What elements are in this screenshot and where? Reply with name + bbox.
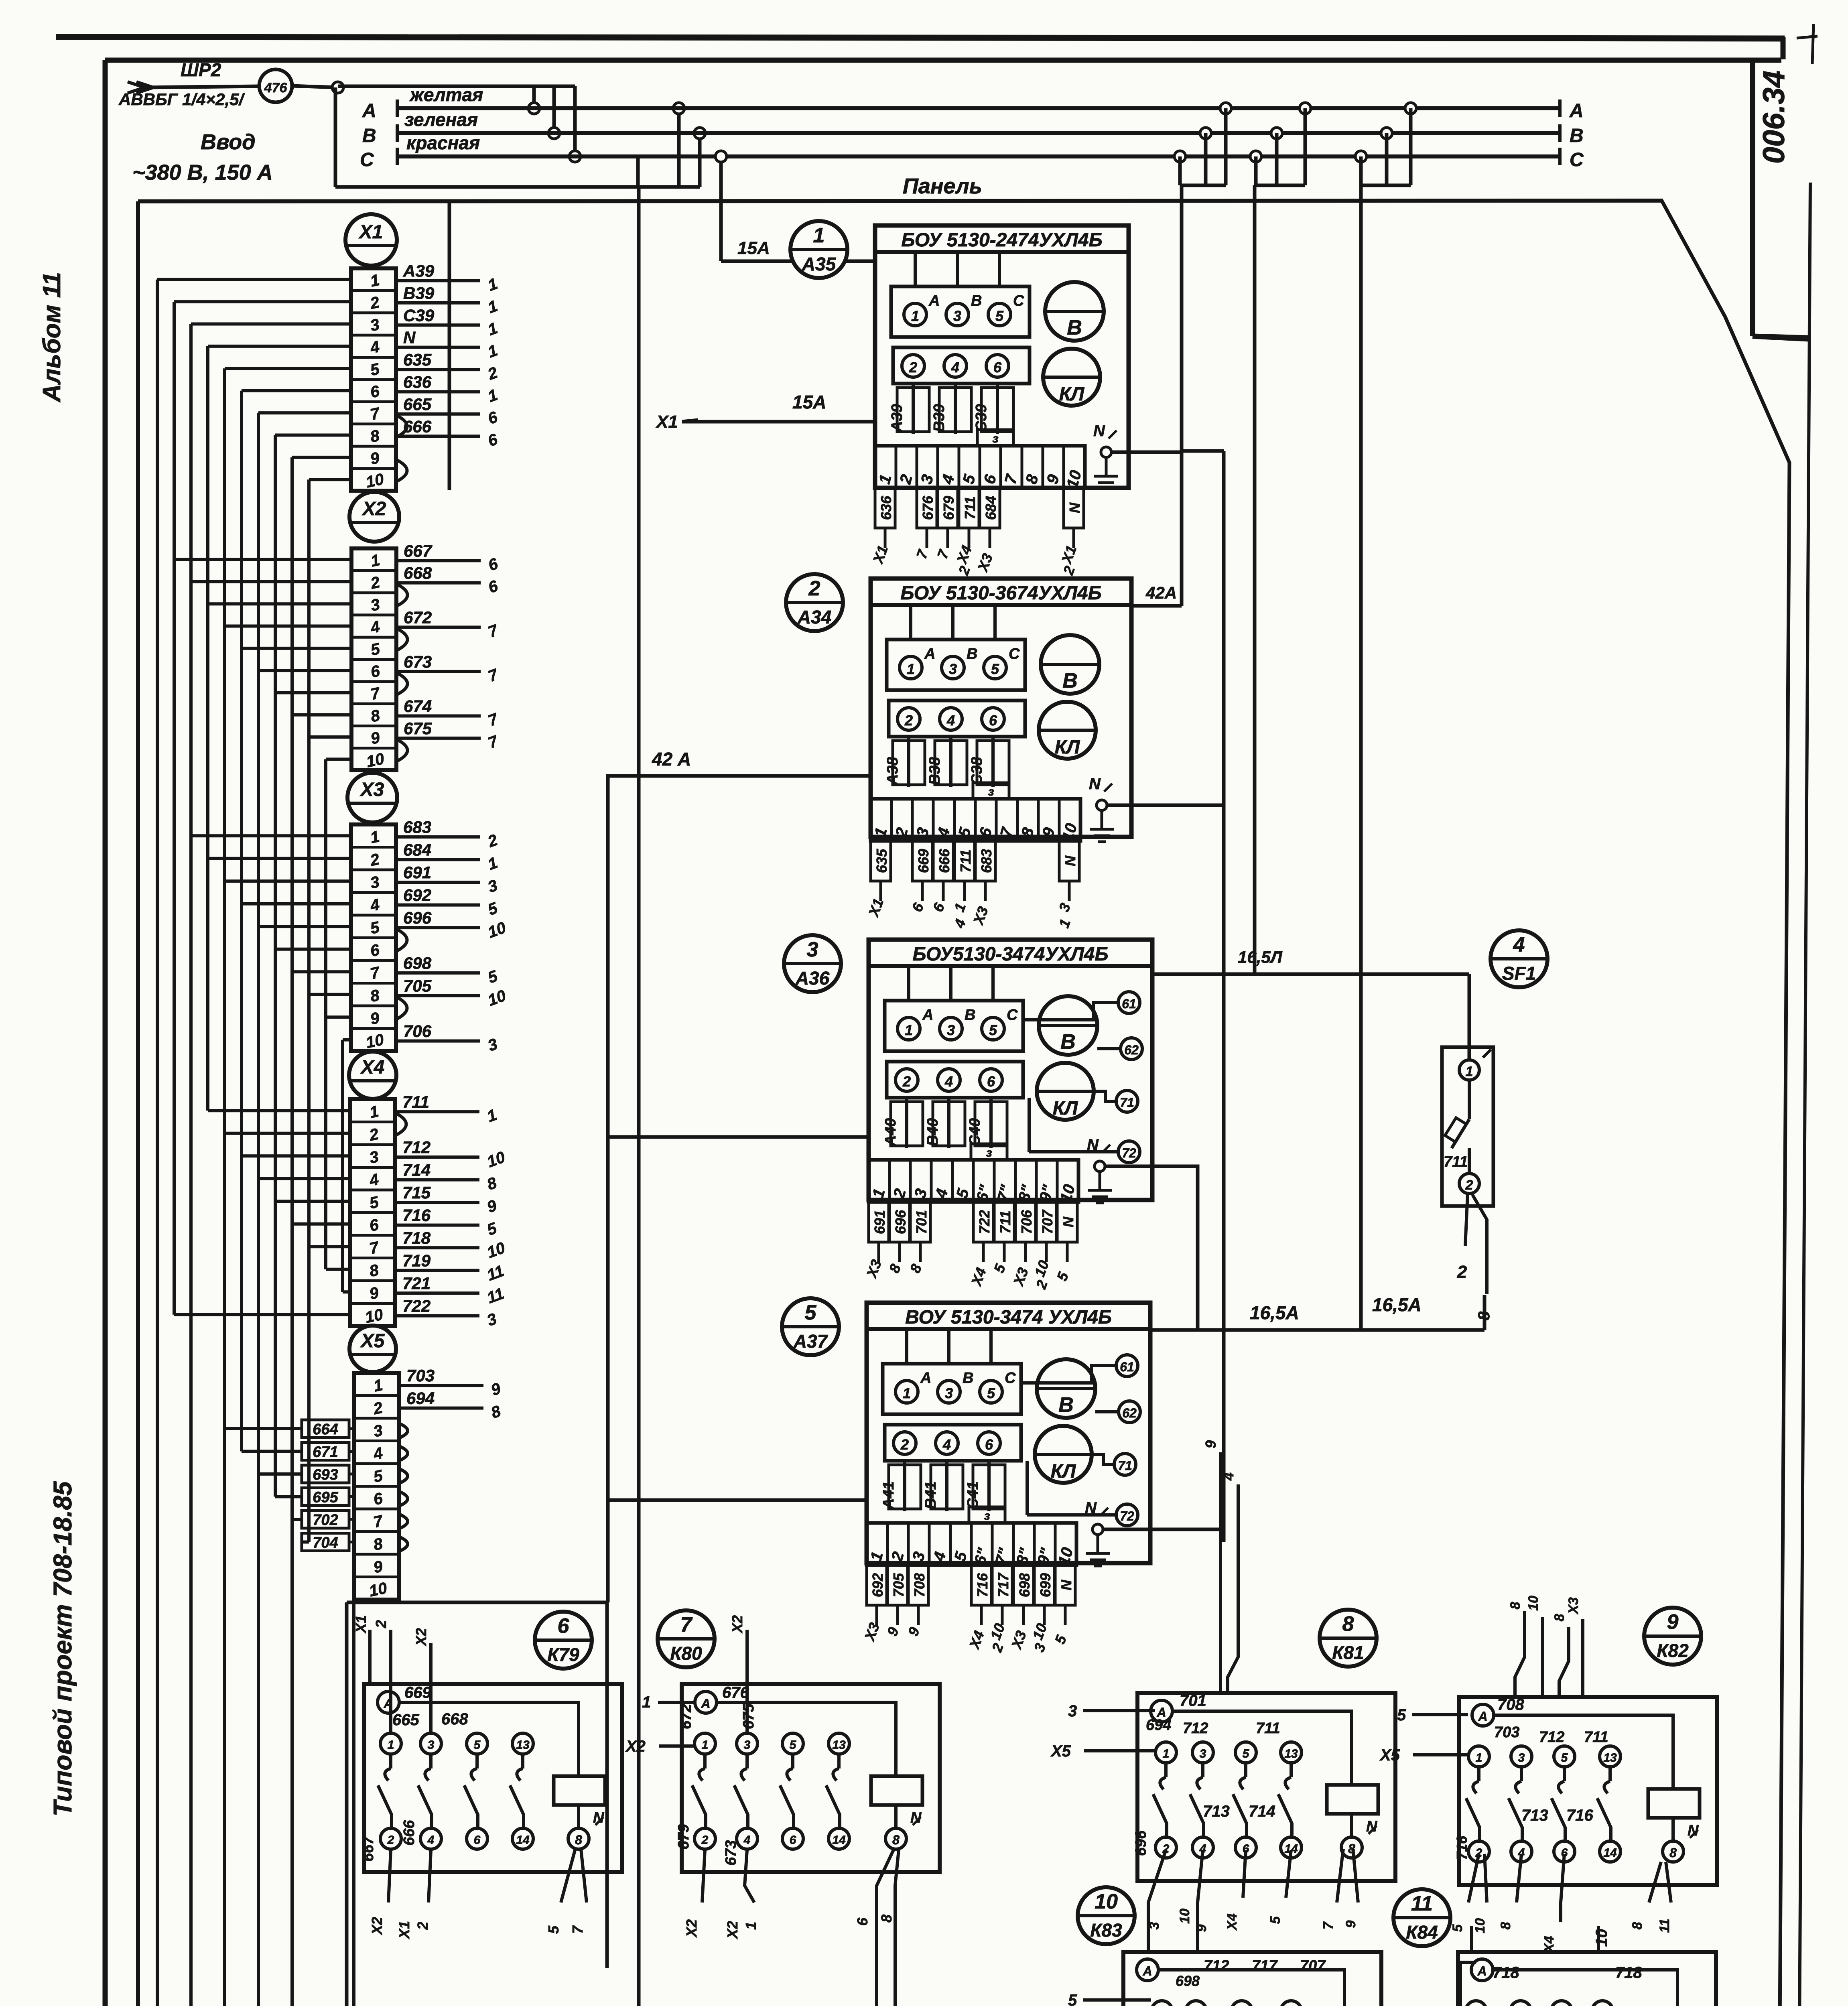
svg-text:2: 2 — [387, 1833, 394, 1847]
wire feeder bottom rail — [335, 185, 700, 189]
bus phase B (green) — [397, 131, 1560, 135]
wire K80 to 23A lines — [877, 1850, 894, 2006]
wire drop to bus A — [532, 86, 536, 108]
svg-text:Х5: Х5 — [1379, 1746, 1400, 1764]
svg-text:8: 8 — [878, 1915, 895, 1923]
svg-text:668: 668 — [404, 564, 432, 583]
svg-text:691: 691 — [403, 863, 431, 882]
svg-text:КЛ: КЛ — [1051, 1461, 1076, 1482]
relay К82 coil — [1648, 1789, 1700, 1818]
wire stub — [191, 323, 351, 326]
svg-text:А: А — [1569, 100, 1584, 122]
wire 42A to block 2 — [608, 774, 871, 778]
unit А35 terminal row — [875, 446, 1085, 488]
unit А35 meter KL — [1043, 349, 1100, 406]
wire feeder top rail — [338, 85, 575, 88]
svg-text:691: 691 — [871, 1210, 888, 1234]
svg-text:695: 695 — [313, 1489, 338, 1506]
svg-text:Панель: Панель — [903, 174, 982, 198]
unit А36 terminal row — [869, 1160, 1078, 1202]
unit А37 ground — [1093, 1524, 1103, 1535]
svg-text:711: 711 — [402, 1092, 429, 1111]
svg-text:В: В — [967, 646, 977, 662]
svg-text:N: N — [1058, 1580, 1074, 1590]
svg-text:2: 2 — [808, 577, 820, 600]
unit А37 designator — [782, 1298, 839, 1355]
wire inner vertical x1120 — [448, 201, 451, 490]
switch SF1 terminal 2 — [1459, 1174, 1479, 1194]
svg-text:665: 665 — [403, 395, 432, 414]
connector X1 terminal strip — [351, 268, 396, 491]
svg-text:8: 8 — [1498, 1922, 1513, 1929]
svg-text:В: В — [1570, 125, 1584, 146]
wire stub — [242, 647, 351, 650]
svg-text:706: 706 — [1018, 1210, 1035, 1234]
svg-text:476: 476 — [264, 80, 288, 95]
relay К84 contact 31-32 — [1592, 2001, 1613, 2006]
svg-text:716: 716 — [1454, 1835, 1470, 1860]
svg-text:1: 1 — [1466, 1064, 1473, 1079]
svg-text:665: 665 — [392, 1711, 419, 1729]
svg-text:674: 674 — [404, 697, 432, 716]
svg-text:Х2: Х2 — [361, 498, 386, 520]
svg-text:2: 2 — [1465, 1178, 1473, 1193]
svg-text:А: А — [924, 646, 935, 662]
unit А36 ground — [1095, 1161, 1105, 1172]
svg-text:ШР2: ШР2 — [181, 59, 221, 80]
svg-text:8: 8 — [1342, 1612, 1354, 1636]
relay К82 pin A — [1472, 1704, 1494, 1726]
unit А36 terminals 2-4-6 — [887, 1062, 1023, 1098]
svg-text:666: 666 — [401, 1820, 418, 1846]
unit А37 terminals 2-4-6 — [885, 1425, 1021, 1461]
svg-text:красная: красная — [406, 132, 480, 153]
relay К83 contact 5-6 — [1231, 2001, 1252, 2006]
svg-text:706: 706 — [403, 1022, 432, 1041]
wire trunk T1 — [1180, 185, 1184, 606]
svg-text:3: 3 — [428, 1738, 435, 1752]
relay К79 contact 5-6 — [467, 1733, 487, 1754]
svg-text:5: 5 — [989, 1022, 997, 1038]
svg-text:3: 3 — [1147, 1922, 1162, 1929]
svg-text:699: 699 — [1037, 1573, 1054, 1597]
svg-text:КЛ: КЛ — [1053, 1098, 1078, 1119]
svg-text:КЛ: КЛ — [1055, 737, 1080, 758]
unit А36 meter KL — [1037, 1063, 1094, 1120]
svg-text:N: N — [1087, 1136, 1099, 1154]
svg-text:3: 3 — [1068, 1702, 1077, 1720]
svg-text:684: 684 — [403, 841, 431, 859]
unit А36 wire labels — [869, 1202, 889, 1242]
svg-text:з: з — [988, 785, 994, 798]
unit А37 aux contacts 61-72 — [1116, 1355, 1138, 1377]
unit А34 terminals 1-3-5 — [887, 640, 1025, 690]
svg-text:1: 1 — [903, 1385, 911, 1401]
svg-text:N: N — [1062, 855, 1078, 866]
svg-text:2: 2 — [701, 1833, 709, 1847]
connector X3 designator — [347, 773, 397, 822]
svg-text:7: 7 — [569, 1925, 586, 1934]
svg-text:5: 5 — [1397, 1706, 1406, 1724]
svg-text:К80: К80 — [670, 1643, 702, 1664]
svg-text:А: А — [1477, 1964, 1487, 1978]
svg-text:Х4: Х4 — [1225, 1913, 1240, 1931]
svg-text:1: 1 — [702, 1738, 709, 1752]
svg-text:669: 669 — [915, 849, 932, 873]
svg-text:В: В — [963, 1370, 973, 1387]
relay К84 contact 1-2 — [1466, 2001, 1487, 2006]
svg-text:С: С — [1570, 149, 1584, 171]
svg-text:В: В — [1067, 316, 1082, 339]
svg-text:42 А: 42 А — [652, 749, 691, 770]
relay К79 pin A — [378, 1691, 399, 1713]
svg-text:Х2: Х2 — [683, 1919, 700, 1938]
wire stub — [309, 1245, 350, 1248]
svg-text:716: 716 — [974, 1573, 991, 1597]
paper right edge — [1796, 183, 1810, 2006]
wire stub — [326, 1268, 350, 1271]
wire stub — [174, 300, 351, 303]
svg-text:694: 694 — [406, 1389, 435, 1408]
svg-text:1: 1 — [911, 308, 919, 324]
relay К81 contact 13-14 — [1281, 1742, 1302, 1763]
svg-text:6: 6 — [558, 1614, 570, 1638]
svg-text:71: 71 — [1118, 1458, 1132, 1473]
wire bundle vertical — [341, 1040, 344, 1292]
svg-text:N: N — [1060, 1216, 1076, 1227]
svg-text:8: 8 — [1508, 1602, 1523, 1609]
bus tap bracket 3 — [1355, 151, 1367, 162]
svg-text:673: 673 — [404, 652, 432, 671]
relay К83 contact 1-2 — [1151, 2001, 1172, 2006]
wire K84 loop left — [1460, 1962, 1476, 2006]
svg-text:1: 1 — [642, 1693, 651, 1711]
svg-text:679: 679 — [940, 496, 957, 520]
wire bundle vertical — [257, 413, 260, 2006]
connector X4 designator — [349, 1052, 396, 1099]
wire bundle vertical — [223, 368, 226, 2006]
unit А34 meter V — [1041, 635, 1099, 694]
svg-text:676: 676 — [920, 495, 936, 520]
wire stub — [343, 1290, 350, 1293]
svg-text:698: 698 — [1176, 1973, 1200, 1989]
svg-text:А: А — [1478, 1709, 1487, 1724]
svg-text:668: 668 — [441, 1710, 468, 1728]
svg-text:А34: А34 — [797, 607, 831, 627]
svg-text:4: 4 — [743, 1833, 751, 1847]
wire bundle vertical — [189, 324, 193, 2006]
wire X1 15A to block 1 — [682, 420, 875, 424]
svg-text:А: А — [922, 1007, 933, 1023]
wire trunk T4 — [1359, 185, 1363, 1331]
wire stub — [258, 1472, 302, 1476]
svg-text:14: 14 — [516, 1833, 530, 1847]
unit А35 terminals 1-3-5 — [891, 286, 1030, 337]
svg-text:6: 6 — [987, 1073, 995, 1090]
svg-text:5: 5 — [991, 661, 999, 677]
svg-text:5: 5 — [995, 308, 1004, 324]
svg-text:з: з — [992, 432, 998, 445]
relay К81 contact 5-6 — [1235, 1742, 1256, 1763]
svg-text:2: 2 — [373, 1620, 389, 1628]
svg-text:10: 10 — [364, 1306, 385, 1326]
svg-text:675: 675 — [404, 719, 432, 738]
svg-text:8: 8 — [1630, 1922, 1645, 1929]
relay К83 box — [1123, 1952, 1381, 2006]
svg-text:712: 712 — [402, 1138, 431, 1157]
svg-text:10: 10 — [1177, 1909, 1192, 1924]
svg-text:5: 5 — [1068, 1992, 1077, 2006]
svg-text:6: 6 — [993, 359, 1002, 376]
svg-text:SF1: SF1 — [1502, 963, 1536, 984]
svg-text:8: 8 — [892, 1833, 900, 1847]
wire drop to bus B — [552, 86, 556, 133]
wire rail y3994 — [347, 1601, 608, 1604]
svg-text:К84: К84 — [1406, 1922, 1438, 1943]
svg-text:В39: В39 — [403, 284, 435, 303]
relay К80 contact 5-6 — [782, 1733, 803, 1754]
wire block1 N to trunk — [1111, 451, 1182, 454]
svg-text:В: В — [971, 292, 982, 309]
svg-text:2: 2 — [1457, 1262, 1467, 1282]
svg-text:10: 10 — [364, 470, 386, 491]
svg-text:А36: А36 — [795, 968, 830, 989]
svg-text:В: В — [1060, 1030, 1076, 1054]
svg-text:676: 676 — [722, 1684, 749, 1701]
wire drop to bus C — [573, 86, 577, 156]
relay К80 designator — [658, 1610, 715, 1667]
svg-text:зеленая: зеленая — [404, 109, 478, 130]
svg-text:Х5: Х5 — [1050, 1742, 1071, 1760]
svg-text:Альбом 11: Альбом 11 — [38, 272, 66, 403]
svg-text:718: 718 — [1493, 1964, 1519, 1982]
relay К79 coil — [554, 1776, 605, 1805]
svg-text:3: 3 — [807, 938, 818, 961]
wire stub — [258, 1177, 350, 1180]
svg-text:N: N — [403, 328, 416, 347]
wire stub — [258, 411, 351, 414]
svg-text:С: С — [360, 149, 374, 171]
svg-text:703: 703 — [406, 1366, 435, 1385]
relay К82 designator — [1644, 1608, 1701, 1665]
svg-text:5: 5 — [805, 1301, 817, 1324]
svg-text:7: 7 — [680, 1613, 693, 1636]
connector X5 wire labels — [399, 1384, 483, 1387]
svg-text:Х2: Х2 — [724, 1921, 741, 1939]
relay К83 contact 3-4 — [1186, 2001, 1206, 2006]
svg-text:711: 711 — [1444, 1153, 1468, 1170]
svg-text:16,5А: 16,5А — [1372, 1294, 1422, 1315]
svg-text:711: 711 — [962, 496, 978, 519]
svg-text:672: 672 — [678, 1704, 695, 1729]
svg-text:3: 3 — [953, 308, 961, 324]
svg-text:КЛ: КЛ — [1059, 384, 1085, 405]
svg-text:718: 718 — [402, 1228, 431, 1247]
svg-text:А: А — [1142, 1964, 1152, 1978]
svg-text:711: 711 — [1584, 1729, 1608, 1746]
relay К84 box — [1458, 1952, 1716, 2006]
unit А36 box — [869, 940, 1152, 1200]
svg-text:8: 8 — [1669, 1846, 1677, 1860]
svg-text:672: 672 — [404, 608, 432, 627]
svg-text:694: 694 — [1146, 1717, 1171, 1734]
svg-text:10: 10 — [365, 750, 386, 771]
svg-text:1: 1 — [743, 1922, 759, 1930]
svg-text:2: 2 — [904, 712, 913, 729]
svg-text:14: 14 — [1603, 1846, 1617, 1860]
svg-text:713: 713 — [1203, 1803, 1230, 1820]
svg-text:713: 713 — [1521, 1807, 1548, 1824]
connector X2 designator — [349, 492, 399, 542]
svg-text:N: N — [1089, 775, 1101, 793]
svg-text:Ввод: Ввод — [201, 130, 256, 154]
svg-text:698: 698 — [1016, 1573, 1033, 1597]
svg-text:5: 5 — [474, 1738, 481, 1752]
wire riser phase B — [698, 133, 702, 187]
svg-text:Х1: Х1 — [358, 221, 383, 243]
connector X4 wire labels — [395, 1110, 479, 1113]
wire stub — [292, 970, 351, 973]
svg-text:15А: 15А — [737, 238, 770, 258]
svg-text:683: 683 — [403, 818, 431, 837]
svg-text:В: В — [1062, 669, 1078, 692]
svg-text:8: 8 — [1475, 1311, 1493, 1320]
svg-text:N: N — [1066, 502, 1083, 513]
wire stub — [225, 625, 351, 628]
svg-text:714: 714 — [402, 1161, 431, 1180]
svg-text:679: 679 — [675, 1824, 692, 1850]
connector X3 wire labels — [396, 835, 480, 839]
relay K79 external wires — [368, 1630, 372, 1684]
svg-text:Х2: Х2 — [729, 1615, 745, 1634]
svg-text:10: 10 — [1472, 1918, 1488, 1933]
switch SF1 designator — [1491, 930, 1547, 987]
switch SF1 feed wire — [1468, 974, 1471, 1060]
wire feeder to node — [292, 86, 338, 87]
svg-text:708: 708 — [911, 1573, 928, 1597]
wire bundle vertical — [173, 302, 176, 1315]
relay К81 pin 8 — [1350, 1814, 1353, 1837]
svg-text:3: 3 — [1200, 1747, 1206, 1760]
relay К79 box — [364, 1684, 622, 1872]
svg-text:6: 6 — [790, 1833, 796, 1847]
svg-text:11: 11 — [1411, 1892, 1433, 1915]
unit А34 designator — [786, 574, 843, 631]
unit А36 designator — [784, 935, 841, 992]
svg-text:10: 10 — [1526, 1596, 1541, 1611]
switch SF1 box — [1442, 1047, 1493, 1206]
svg-text:5: 5 — [987, 1385, 995, 1401]
svg-text:712: 712 — [1539, 1729, 1564, 1746]
relay K81 external wires — [1083, 1709, 1155, 1712]
svg-text:С39: С39 — [403, 306, 435, 325]
relay К80 wire A to coil — [717, 1702, 896, 1776]
unit А35 designator — [790, 221, 847, 278]
wire stub — [242, 1154, 350, 1157]
svg-text:Х4: Х4 — [360, 1057, 385, 1078]
svg-text:Х2: Х2 — [625, 1738, 646, 1755]
wire vertical 1513 lower — [605, 1602, 609, 1968]
relay К83 contact 13-14 — [1281, 2001, 1302, 2006]
unit А34 wire labels — [871, 841, 891, 881]
svg-text:692: 692 — [869, 1573, 886, 1597]
unit А34 box — [871, 579, 1131, 837]
svg-text:9: 9 — [1202, 1440, 1219, 1448]
svg-text:з: з — [986, 1146, 992, 1159]
wire stub — [225, 367, 351, 370]
svg-text:671: 671 — [313, 1444, 338, 1461]
svg-text:703: 703 — [1494, 1724, 1519, 1741]
wire stub — [326, 757, 351, 761]
svg-text:К83: К83 — [1090, 1920, 1122, 1941]
svg-text:Х5: Х5 — [360, 1330, 385, 1352]
relay K80 external wires — [658, 1701, 695, 1704]
svg-text:3: 3 — [949, 661, 957, 677]
svg-text:Х1: Х1 — [396, 1921, 412, 1939]
svg-text:2: 2 — [414, 1922, 431, 1930]
relay К82 box — [1459, 1697, 1717, 1885]
unit А34 terminal row — [871, 799, 1080, 841]
wire bundle vertical — [274, 435, 277, 1497]
svg-text:702: 702 — [313, 1512, 338, 1529]
wire 16,5L to SF1 — [1152, 973, 1469, 976]
svg-text:А39: А39 — [403, 261, 435, 280]
unit А37 wire labels — [867, 1565, 887, 1605]
svg-text:715: 715 — [402, 1183, 431, 1202]
wire stub — [242, 1450, 302, 1453]
wire stub — [242, 389, 351, 392]
svg-text:6: 6 — [854, 1917, 871, 1926]
wire feed to block 3 — [608, 1135, 869, 1139]
relay К79 contact 3-4 — [420, 1733, 441, 1754]
svg-text:7: 7 — [1321, 1921, 1336, 1929]
svg-text:8: 8 — [575, 1833, 582, 1847]
svg-text:1: 1 — [1476, 1751, 1482, 1764]
svg-text:А: А — [920, 1370, 931, 1387]
relay К81 coil — [1327, 1785, 1378, 1814]
svg-text:716: 716 — [402, 1206, 431, 1225]
svg-text:3: 3 — [945, 1385, 953, 1401]
wire trunk 1515 — [608, 776, 639, 1602]
svg-text:Х2: Х2 — [413, 1628, 429, 1647]
svg-text:13: 13 — [516, 1738, 530, 1752]
relay К80 contact 3-4 — [737, 1733, 757, 1754]
relay К82 contact 5-6 — [1554, 1746, 1575, 1767]
svg-text:~380 В, 150 А: ~380 В, 150 А — [132, 160, 273, 185]
svg-text:А: А — [701, 1696, 710, 1711]
relay К82 contact 1-2 — [1468, 1746, 1489, 1767]
svg-text:13: 13 — [1284, 1747, 1298, 1760]
svg-text:705: 705 — [890, 1573, 907, 1597]
svg-text:N: N — [1085, 1499, 1097, 1517]
svg-text:4: 4 — [1220, 1472, 1237, 1481]
svg-text:3: 3 — [744, 1738, 751, 1752]
svg-text:1: 1 — [907, 661, 915, 677]
svg-text:4: 4 — [944, 1073, 953, 1090]
wire stub — [242, 902, 351, 906]
svg-text:9: 9 — [1194, 1924, 1209, 1932]
wire feed to block 5 — [608, 1498, 867, 1502]
svg-text:10: 10 — [368, 1579, 389, 1600]
relay К82 contact 13-14 — [1600, 1746, 1621, 1767]
wire 16,5A lower — [1150, 1328, 1484, 1332]
svg-text:636: 636 — [878, 495, 894, 520]
svg-text:667: 667 — [404, 541, 433, 560]
wire bundle vertical — [324, 759, 327, 1269]
connector X2 terminal strip — [351, 548, 396, 770]
wire trunk T2 — [1222, 451, 1226, 1542]
wire 15A feed to block 1 — [719, 156, 723, 261]
